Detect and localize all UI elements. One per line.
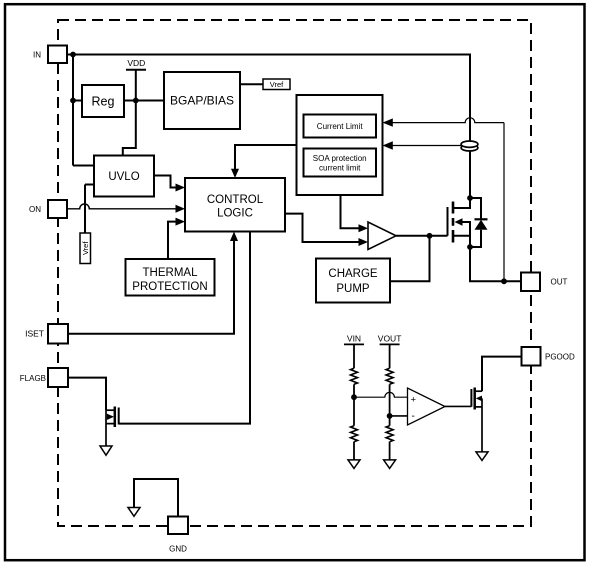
svg-text:CHARGE: CHARGE — [328, 268, 378, 280]
svg-text:GND: GND — [169, 545, 187, 554]
svg-text:Reg: Reg — [92, 95, 115, 109]
wire VIN tap to comparator + (hops VOUT) — [354, 392, 408, 397]
resistor VIN lower — [351, 426, 358, 442]
ground VIN divider — [348, 460, 360, 469]
wire Current Limit block to CONTROL LOGIC top — [231, 145, 296, 178]
wire source to OUT pin — [470, 247, 521, 281]
wire CONTROL LOGIC to flag FET gate — [119, 232, 250, 424]
block Reg — [82, 85, 124, 117]
svg-text:VIN: VIN — [347, 334, 361, 344]
node VOUT tap — [387, 413, 393, 419]
svg-text:PUMP: PUMP — [336, 283, 370, 295]
diode body diode — [470, 198, 488, 247]
block UVLO — [94, 156, 154, 197]
wire UVLO input 1 — [73, 165, 94, 167]
wire VOUT divider middle — [389, 384, 391, 425]
svg-text:+: + — [411, 394, 417, 405]
wire VIN lower to ground — [353, 442, 355, 460]
net label Vref (horizontal box) — [263, 79, 290, 90]
svg-text:PROTECTION: PROTECTION — [132, 281, 207, 293]
pin GND — [168, 517, 188, 554]
node VIN tap — [351, 394, 357, 400]
pin ISET — [25, 324, 68, 344]
svg-text:UVLO: UVLO — [108, 171, 139, 183]
wire ISET to CONTROL LOGIC bottom — [68, 232, 238, 334]
power rail VIN — [344, 334, 364, 369]
node IN junction — [70, 52, 76, 58]
power rail VDD — [123, 58, 146, 156]
resistor VIN upper — [351, 368, 358, 384]
node Reg input junction — [70, 98, 76, 104]
svg-text:ON: ON — [29, 205, 41, 214]
wire charge pump to gate node — [390, 236, 430, 281]
ground flag FET source — [100, 446, 112, 455]
gate driver buffer — [368, 222, 396, 250]
node drain junction — [467, 195, 473, 201]
wire FLAGB to flag FET drain — [68, 378, 106, 411]
power rail VOUT — [378, 334, 402, 369]
svg-text:BGAP/BIAS: BGAP/BIAS — [170, 94, 234, 108]
svg-text:VOUT: VOUT — [378, 334, 402, 344]
node VDD junction — [133, 98, 139, 104]
wire CONTROL LOGIC output to gate driver — [285, 214, 368, 246]
wire comparator output to PGOOD FET gate — [445, 405, 471, 407]
wire sense line 1 to Current Limit (hops IN rail) — [383, 118, 505, 127]
svg-text:VDD: VDD — [127, 58, 145, 68]
wire UVLO output to CONTROL LOGIC — [154, 176, 185, 192]
net label Vref (vertical box near ON) — [80, 233, 91, 264]
wire PGOOD FET drain to PGOOD pin — [482, 357, 522, 392]
transistor pass NMOS gate bar — [447, 207, 449, 236]
transistor PGOOD NMOS — [471, 388, 482, 452]
IC boundary (dashed) — [58, 20, 531, 526]
svg-text:SOA protection: SOA protection — [313, 154, 367, 163]
wire GND pin internal ground — [134, 479, 178, 517]
wire ON to CONTROL LOGIC (hops over Vref branch) — [67, 204, 185, 213]
wire VOUT tap to comparator - — [390, 415, 408, 417]
node OUT junction — [501, 278, 507, 284]
svg-text:-: - — [412, 411, 415, 422]
current sensor element — [461, 141, 478, 151]
svg-text:Vref: Vref — [81, 241, 90, 255]
block BGAP/BIAS — [164, 72, 240, 129]
pin IN — [33, 46, 67, 64]
svg-text:FLAGB: FLAGB — [20, 374, 46, 383]
node source junction — [467, 244, 473, 250]
wire sense line 2 from current sensor — [383, 141, 462, 149]
resistor VOUT lower — [386, 426, 393, 442]
wire IN branch down to Reg and UVLO — [72, 55, 74, 166]
svg-text:current limit: current limit — [319, 164, 361, 173]
pin PGOOD — [522, 347, 576, 366]
svg-text:Vref: Vref — [270, 80, 284, 89]
block current limit group — [297, 95, 383, 195]
wire IN rail (top horizontal to pass FET drain) — [67, 55, 470, 199]
block CONTROL LOGIC U-logic — [185, 178, 285, 232]
block CHARGE PUMP — [316, 259, 390, 303]
wire to Reg input — [73, 100, 82, 102]
transistor flag NMOS (mirrored) — [106, 407, 119, 447]
wire Reg to BGAP/BIAS — [124, 100, 164, 102]
svg-text:OUT: OUT — [551, 278, 568, 287]
wire THERMAL PROTECTION to CONTROL LOGIC — [168, 218, 185, 259]
ground GND symbol — [128, 508, 140, 517]
wire VOUT lower to ground — [389, 442, 391, 460]
svg-text:Current Limit: Current Limit — [317, 122, 364, 131]
ground VOUT divider — [384, 460, 396, 469]
ground PGOOD FET source — [476, 452, 488, 461]
wire VIN divider middle — [353, 384, 355, 425]
transistor pass NMOS source stub — [453, 235, 470, 237]
svg-text:PGOOD: PGOOD — [545, 353, 575, 362]
wire BGAP/BIAS to Vref — [240, 83, 263, 85]
wire current limit output to gate driver — [341, 195, 369, 232]
pin FLAGB — [20, 368, 68, 387]
svg-text:CONTROL: CONTROL — [207, 194, 264, 206]
svg-text:IN: IN — [33, 51, 41, 60]
svg-text:LOGIC: LOGIC — [217, 208, 253, 220]
svg-text:THERMAL: THERMAL — [143, 267, 199, 279]
block Current Limit — [304, 115, 377, 138]
pin OUT — [521, 273, 568, 292]
pin ON — [29, 200, 67, 218]
wire driver output to pass FET gate — [396, 235, 448, 237]
wire Vref vertical branch to UVLO input 2 — [85, 185, 94, 234]
resistor VOUT upper — [386, 368, 393, 384]
block SOA protection current limit — [304, 149, 377, 177]
transistor pass NMOS body arrow — [455, 218, 471, 247]
block THERMAL PROTECTION — [126, 259, 215, 296]
transistor pass NMOS channel segments — [452, 202, 455, 243]
wire OUT sense feedback (vertical) — [503, 123, 505, 282]
transistor pass NMOS drain stub — [453, 198, 470, 208]
op-amp PGOOD comparator — [408, 388, 446, 425]
node gate junction — [427, 233, 433, 239]
svg-text:ISET: ISET — [25, 329, 44, 339]
